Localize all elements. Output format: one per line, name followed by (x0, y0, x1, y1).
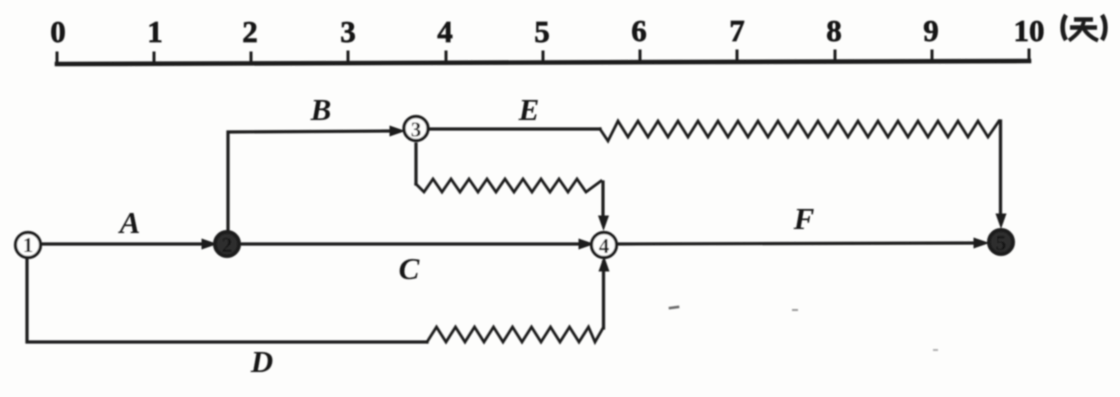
node 5 (989, 230, 1013, 255)
svg-text:2: 2 (222, 233, 233, 257)
svg-text:F: F (793, 201, 815, 236)
arrowhead D into node 4 from below (599, 258, 609, 272)
svg-text:10: 10 (1014, 13, 1045, 48)
arrowhead A into node 2 (202, 239, 216, 249)
node 1 (16, 233, 41, 258)
arrowhead C into node 4 (579, 239, 593, 249)
svg-text:5: 5 (534, 14, 550, 49)
wire activity D (node1 down, right, wavy float, up into node4) (27, 258, 427, 342)
svg-text:A: A (118, 205, 141, 240)
svg-text:9: 9 (923, 13, 939, 48)
svg-text:0: 0 (50, 14, 66, 49)
wire activity C (node2 to node4) (240, 242, 582, 245)
scan speck faint bottom (934, 349, 937, 351)
scan speck faint right (793, 309, 797, 311)
axis tick 0 (50, 14, 66, 64)
node 3 (404, 117, 428, 142)
svg-text:E: E (518, 92, 540, 127)
wire activity F (node4 to node5) (617, 243, 976, 244)
axis tick 8 (826, 13, 842, 62)
svg-text:6: 6 (631, 13, 647, 48)
wavy float line of E (600, 121, 999, 141)
axis tick 4 (437, 14, 453, 63)
svg-text:8: 8 (826, 13, 842, 48)
axis tick 1 (147, 14, 163, 64)
arrowhead F into node 5 (974, 238, 988, 248)
wavy float line below node 3 (free float of B path into node 4) (414, 144, 417, 184)
svg-text:D: D (250, 344, 273, 379)
axis tick 10 (1014, 13, 1045, 61)
wire D vertical into node 4 from below (602, 262, 605, 328)
wire float vertical down into node 4 from above (601, 182, 604, 214)
node 2 (215, 232, 239, 257)
svg-text:C: C (399, 251, 420, 286)
svg-text:3: 3 (411, 118, 422, 142)
axis tick 5 (534, 14, 550, 62)
svg-text:7: 7 (729, 13, 745, 48)
arrowhead B into node 3 (390, 126, 404, 136)
node 4 (592, 233, 617, 259)
wavy float line of D (427, 327, 603, 342)
svg-text:1: 1 (23, 233, 34, 257)
wire activity B (node2 up then right to node3) (228, 131, 392, 231)
axis tick 7 (729, 13, 745, 62)
svg-text:3: 3 (340, 14, 356, 49)
time axis line (57, 61, 1029, 64)
svg-text:4: 4 (437, 14, 453, 49)
axis unit label (天) (1063, 15, 1106, 41)
wire activity A (node1 to node2) (41, 242, 204, 245)
axis tick 6 (631, 13, 647, 62)
arrowhead E into node 5 from above (996, 214, 1006, 228)
svg-text:5: 5 (996, 231, 1007, 255)
wire E vertical down into node 5 (999, 121, 1002, 216)
svg-text:1: 1 (147, 14, 163, 49)
wire activity E (node3 right then wavy float to corner above node5) (429, 127, 600, 130)
arrowhead float into node 4 from above (599, 216, 609, 230)
scan speck (670, 307, 678, 308)
axis tick 3 (340, 14, 356, 63)
axis tick 9 (923, 13, 939, 61)
svg-text:2: 2 (242, 14, 258, 49)
axis tick 2 (242, 14, 258, 63)
svg-text:4: 4 (599, 234, 610, 258)
svg-text:B: B (310, 92, 332, 127)
